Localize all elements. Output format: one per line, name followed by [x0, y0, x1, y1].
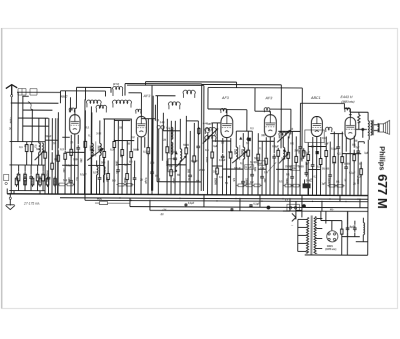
wire heater drop right — [236, 82, 238, 88]
IF2 trimmer arrow — [232, 151, 247, 163]
wire — [161, 129, 163, 161]
wire — [197, 121, 199, 144]
wire — [282, 159, 284, 195]
wire V4 top cap — [269, 111, 271, 114]
terminal box A — [18, 89, 26, 96]
wire — [69, 97, 71, 112]
det coil loops — [279, 132, 290, 138]
resistor small box — [291, 184, 300, 187]
wire bus 3 — [85, 200, 368, 201]
resistor R33 — [287, 150, 290, 161]
capacitor on bus 3 — [249, 204, 252, 207]
junction — [113, 194, 114, 195]
wire — [48, 181, 50, 194]
wire — [38, 118, 40, 143]
tube V2 AF3 IF amplifier — [136, 116, 146, 136]
wire — [360, 162, 362, 169]
resistor R16 — [113, 139, 116, 150]
rectifier tube 1821 — [327, 231, 338, 242]
resistor R32 — [277, 148, 280, 159]
svg-text:0-46μμF: 0-46μμF — [203, 122, 213, 125]
resistor R34 — [295, 154, 298, 165]
wire ladder rail a — [54, 118, 56, 194]
wire V5 cathode lead — [315, 136, 317, 195]
wire osc box bottom — [157, 181, 201, 183]
wire — [103, 175, 105, 183]
wire — [261, 141, 263, 174]
IF2 coil primary — [236, 147, 238, 159]
svg-text:25000: 25000 — [53, 178, 56, 185]
wire — [113, 119, 115, 141]
wire — [130, 157, 132, 194]
resistor R28 — [229, 150, 232, 161]
wire connector — [118, 164, 131, 166]
wire — [162, 113, 164, 131]
wire connector — [62, 164, 78, 166]
wire — [247, 131, 249, 150]
wire — [84, 147, 86, 194]
wire heater feed — [320, 211, 322, 218]
junction — [84, 193, 85, 194]
wire — [333, 162, 335, 195]
junction bus2 — [329, 198, 330, 199]
junction — [211, 194, 212, 195]
wire — [221, 160, 223, 195]
wire — [287, 136, 289, 152]
wire — [107, 160, 109, 173]
shielded coil crown — [113, 87, 123, 97]
wire V4 cathode lead — [269, 137, 271, 195]
svg-text:5000: 5000 — [240, 149, 243, 155]
resistor R18 — [126, 171, 129, 182]
resistor input a — [25, 142, 28, 154]
aerial coil La — [39, 143, 41, 152]
wire V4 lead — [265, 137, 267, 156]
wire — [59, 91, 61, 103]
wire — [277, 157, 279, 195]
wire bus link — [339, 195, 341, 201]
svg-text:0,1: 0,1 — [317, 166, 321, 169]
wire input row — [23, 109, 53, 111]
coil loops right of V5 — [325, 127, 332, 132]
svg-text:0,1μF: 0,1μF — [188, 202, 195, 205]
svg-text:3-12: 3-12 — [96, 132, 101, 135]
transformer primary tap — [298, 234, 307, 236]
resistor R25 — [198, 127, 200, 135]
svg-text:5000: 5000 — [165, 161, 168, 167]
svg-text:0,1μF: 0,1μF — [144, 178, 147, 185]
wire anode to transformer — [367, 112, 369, 120]
wire — [113, 147, 115, 194]
svg-text:0,5: 0,5 — [205, 149, 209, 152]
wire — [362, 218, 364, 223]
wire aerial rail — [17, 91, 60, 93]
wire — [329, 179, 331, 196]
wire V4 anode top link — [270, 108, 290, 110]
resistor R30 — [257, 152, 260, 163]
wire connector — [62, 136, 69, 138]
resistor R10 — [57, 153, 60, 164]
wire — [307, 188, 309, 195]
terminal dot A — [267, 206, 271, 210]
junction on ground bus — [295, 194, 296, 195]
capacitor C14 — [221, 154, 225, 160]
wire — [299, 103, 301, 144]
IF1 coil secondary — [100, 143, 102, 155]
wire connector — [236, 130, 252, 132]
junction bus2 — [179, 198, 180, 199]
wire — [360, 174, 362, 195]
wire connector — [186, 120, 198, 122]
svg-text:0,1μF: 0,1μF — [80, 173, 87, 176]
wire row rail 1 — [10, 141, 46, 143]
svg-text:500: 500 — [105, 177, 108, 182]
padder trimmer — [206, 128, 210, 132]
resistor R38 — [333, 154, 336, 165]
svg-text:0,1: 0,1 — [19, 146, 23, 149]
capacitor C8 — [116, 167, 120, 173]
svg-text:300: 300 — [261, 134, 266, 137]
junction — [359, 199, 360, 200]
wire — [77, 151, 79, 194]
svg-text:10+: 10+ — [213, 170, 218, 173]
wire — [107, 179, 109, 194]
wire — [84, 87, 86, 100]
resistor R22 — [170, 167, 173, 178]
coil arrow blob — [239, 137, 242, 140]
junction — [307, 195, 308, 196]
svg-text:0,1μF: 0,1μF — [143, 151, 150, 154]
wire V1 grid lead — [75, 87, 77, 108]
wire bus link — [239, 199, 241, 211]
wire — [57, 112, 59, 148]
wire V4 grid drop — [254, 88, 256, 111]
wire — [170, 121, 172, 170]
wire bus link — [321, 201, 323, 211]
capacitor on bus — [184, 203, 187, 206]
svg-text:(4 V): (4 V) — [113, 82, 119, 86]
osc coil stack 2 — [171, 142, 173, 154]
resistor R17 — [121, 147, 124, 158]
svg-text:2M: 2M — [54, 158, 57, 161]
wire osc box wall inner — [156, 96, 158, 182]
wire — [174, 162, 176, 195]
capacitor C17 — [260, 174, 264, 180]
wire right frame — [367, 140, 370, 255]
wire — [251, 131, 253, 172]
resistor R smoothing — [341, 228, 343, 236]
wire — [325, 156, 327, 195]
electrolytic filled — [247, 138, 251, 141]
transformer secondary tap — [316, 247, 322, 249]
wire — [179, 161, 181, 195]
svg-text:0,1: 0,1 — [336, 181, 340, 184]
mains transformer core — [310, 215, 312, 254]
wire — [341, 162, 343, 195]
svg-text:300: 300 — [157, 178, 160, 183]
wire — [51, 169, 53, 194]
wire switch link — [296, 209, 302, 211]
capacitor C5 — [69, 178, 73, 184]
wire coil bank rail 2 — [90, 106, 92, 194]
tone resistor sawtooth — [358, 115, 360, 123]
wire heater drop left — [145, 82, 147, 86]
resistor R44 — [24, 176, 27, 187]
wire V6 anode link — [350, 111, 368, 113]
tube V1 AK2 mixer — [70, 115, 80, 134]
svg-text:μμF: μμF — [258, 163, 263, 165]
wire — [64, 91, 66, 150]
junction — [149, 200, 150, 201]
svg-text:0,2: 0,2 — [250, 181, 254, 184]
resistor R24 — [193, 153, 196, 164]
wire V3 top cap — [226, 109, 228, 115]
wire input top row — [11, 102, 59, 104]
wire connector — [88, 164, 104, 166]
tube V4 AF3 detector — [264, 115, 276, 137]
terminal box left edge — [4, 174, 9, 184]
wire — [154, 105, 156, 121]
svg-text:500: 500 — [228, 151, 233, 154]
junction on ground bus — [349, 195, 350, 196]
svg-text:5000: 5000 — [285, 178, 288, 184]
svg-text:2000: 2000 — [199, 169, 205, 172]
svg-text:E443 H: E443 H — [340, 95, 352, 99]
antenna terminal — [11, 95, 13, 97]
junction on ground bus — [316, 195, 317, 196]
wire — [333, 132, 335, 157]
junction — [341, 195, 342, 196]
svg-text:1μF: 1μF — [305, 162, 310, 165]
capacitor C7 — [98, 175, 102, 181]
svg-text:300: 300 — [187, 169, 190, 174]
junction — [321, 201, 322, 202]
svg-text:1000: 1000 — [172, 178, 175, 184]
wire — [189, 131, 191, 173]
wire — [235, 159, 237, 195]
junction bus3 — [312, 201, 313, 202]
band coil L1b — [104, 166, 105, 174]
wire — [18, 117, 48, 119]
wire connector — [212, 140, 231, 142]
svg-text:1000: 1000 — [115, 161, 118, 167]
wire — [64, 159, 66, 194]
svg-text:0,1μF: 0,1μF — [349, 172, 356, 175]
wire rail segment — [128, 92, 141, 94]
wire — [103, 158, 105, 166]
resistor R35 — [307, 152, 310, 163]
junction — [339, 195, 340, 196]
junction — [333, 195, 334, 196]
wire — [57, 161, 59, 194]
resistor R13 — [84, 139, 87, 150]
resistor row e — [42, 172, 45, 184]
svg-text:0,1μF: 0,1μF — [245, 167, 252, 169]
mains transformer core 2 — [311, 215, 313, 254]
wire output rail — [300, 102, 344, 104]
terminal box E — [30, 89, 37, 96]
wire — [103, 118, 105, 150]
wire screen drop x302 — [301, 88, 303, 161]
svg-text:1μF: 1μF — [322, 184, 327, 186]
boxed label 2 — [258, 161, 266, 166]
resistor R43 — [15, 176, 18, 187]
wire — [287, 158, 289, 195]
svg-text:∼: ∼ — [291, 223, 294, 227]
grid curl V3 — [221, 109, 227, 114]
grid curl V1 — [69, 108, 74, 112]
svg-text:AF3: AF3 — [221, 96, 230, 100]
electrolytic block — [303, 183, 311, 188]
capacitor C25 — [344, 164, 348, 170]
wire — [30, 165, 32, 174]
oscillator coil loops 2 — [183, 90, 195, 98]
resistor R15 — [107, 171, 110, 182]
resistor small box — [57, 183, 66, 186]
wire — [98, 181, 100, 194]
wire — [319, 164, 321, 195]
IF2 core — [239, 145, 241, 160]
wire — [104, 91, 106, 96]
svg-text:5000: 5000 — [291, 168, 297, 170]
svg-text:0,1: 0,1 — [93, 171, 97, 174]
junction dark — [228, 176, 230, 178]
wire bus link — [301, 195, 303, 206]
svg-text:7μF: 7μF — [355, 146, 360, 149]
svg-text:1μF: 1μF — [213, 145, 218, 148]
resistor input b — [30, 142, 33, 154]
svg-text:2000: 2000 — [205, 157, 208, 163]
antenna — [6, 85, 17, 95]
transformer primary tap — [298, 226, 307, 228]
svg-text:1μF: 1μF — [364, 152, 369, 155]
svg-text:0,1μF: 0,1μF — [66, 164, 73, 167]
svg-text:0,1: 0,1 — [88, 134, 92, 137]
wire V1 lead — [70, 135, 72, 148]
junction on ground bus — [242, 194, 243, 195]
svg-text:25000: 25000 — [214, 178, 217, 185]
wire rectifier anode — [331, 221, 333, 231]
wire — [329, 142, 331, 173]
wire — [242, 159, 244, 179]
detector coil — [283, 147, 285, 159]
wire V3 cathode lead — [225, 138, 227, 195]
grid curl V6 — [345, 108, 350, 112]
capacitor C filter 8uF — [346, 225, 350, 231]
wire — [134, 161, 136, 176]
wire shield wall left — [200, 84, 203, 191]
resistor R36 — [319, 156, 322, 167]
wire — [296, 209, 302, 211]
capacitor row c — [29, 174, 33, 180]
wire — [320, 219, 322, 221]
wire to speaker — [374, 124, 380, 126]
svg-text:10000: 10000 — [30, 178, 33, 185]
wire — [126, 141, 128, 174]
coupling coil loops 2 — [113, 100, 132, 108]
wire — [304, 179, 306, 183]
junction — [277, 194, 278, 195]
svg-text:0,5μF: 0,5μF — [331, 148, 338, 151]
capacitor C12 — [188, 173, 192, 179]
wire — [235, 131, 237, 147]
svg-text:300: 300 — [297, 149, 300, 154]
capacitor C24 — [304, 170, 308, 176]
svg-text:AF3: AF3 — [142, 94, 151, 98]
top cap bar — [73, 114, 76, 116]
junction — [203, 194, 204, 195]
wire — [48, 118, 50, 175]
svg-text:(1876 etc): (1876 etc) — [325, 248, 336, 251]
svg-text:0,1: 0,1 — [352, 144, 356, 147]
trimmer T2 — [161, 126, 164, 129]
wire bus link — [203, 195, 205, 207]
wire rail drop x281 — [280, 85, 282, 148]
wire — [57, 150, 59, 155]
svg-text:0,1μF: 0,1μF — [234, 167, 241, 170]
capacitor C23 — [336, 144, 340, 150]
resistor row a — [17, 172, 20, 184]
svg-text:500: 500 — [332, 162, 337, 165]
choke field coil — [363, 223, 364, 235]
resistor R48 — [54, 176, 57, 187]
resistor small box — [252, 184, 261, 187]
wire — [41, 152, 43, 165]
wire V2 top cap — [140, 93, 142, 117]
wire — [51, 152, 53, 163]
resistor small box — [283, 184, 292, 187]
wire — [299, 150, 301, 195]
wire — [170, 175, 172, 194]
wire — [141, 118, 155, 120]
svg-text:50.000: 50.000 — [322, 169, 330, 171]
wire — [166, 119, 168, 146]
coil arrow blob — [283, 149, 286, 152]
wire — [291, 131, 293, 174]
osc padding box — [168, 159, 176, 172]
wire connector — [276, 168, 292, 170]
wire row rail 2 — [9, 164, 45, 166]
capacitor C15 — [241, 179, 245, 185]
wire — [151, 119, 153, 170]
wire — [307, 160, 309, 195]
svg-text:300: 300 — [45, 178, 48, 183]
wire antenna down-lead — [10, 97, 12, 194]
wire — [257, 133, 259, 154]
wire V3 lead — [222, 138, 224, 153]
resistor small box — [65, 183, 74, 186]
wire — [126, 179, 128, 194]
wire — [363, 142, 365, 144]
svg-text:5000: 5000 — [254, 157, 260, 160]
resistor small box — [124, 183, 133, 186]
junction on ground bus — [140, 194, 141, 195]
wire primary taps join — [297, 219, 299, 251]
wire — [347, 221, 349, 225]
svg-text:0,3: 0,3 — [60, 148, 64, 151]
wire V5 lead — [320, 137, 322, 156]
boxed label 1 — [245, 165, 254, 170]
ground — [6, 205, 15, 210]
wire V3 grid wire — [208, 108, 227, 110]
tube V5 ABC1 — [311, 116, 322, 136]
wire — [197, 150, 199, 195]
coil arrow blob — [99, 148, 102, 151]
svg-text:100: 100 — [281, 157, 286, 160]
svg-text:500: 500 — [101, 161, 106, 164]
resistor small box — [244, 184, 253, 187]
wire V6 top cap — [349, 109, 351, 118]
